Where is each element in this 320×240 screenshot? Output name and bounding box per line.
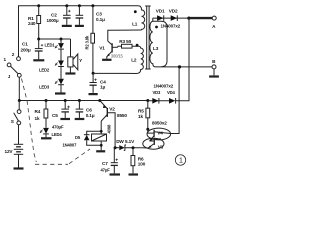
svg-text:1N4007x2: 1N4007x2 xyxy=(154,84,174,89)
capacitor C5 xyxy=(52,101,70,130)
ground (LED chain) xyxy=(55,92,66,94)
resistor R4 xyxy=(35,101,48,128)
junction dot (R6) xyxy=(132,146,135,149)
junction dots (relay/D5) xyxy=(100,130,103,133)
LED1 xyxy=(45,43,64,50)
svg-text:VD2: VD2 xyxy=(169,9,178,14)
capacitor C3 xyxy=(76,6,105,25)
svg-text:47μF: 47μF xyxy=(101,168,111,173)
junction dot (DW line / C7) xyxy=(114,146,117,149)
switch J lever xyxy=(11,66,18,73)
svg-text:C2: C2 xyxy=(51,13,57,18)
svg-text:470μF: 470μF xyxy=(52,124,64,129)
dashed mechanical linkage xyxy=(22,79,91,165)
junction dots on top rail xyxy=(37,4,94,7)
ground (V1 emitter) xyxy=(102,59,111,61)
zener DW xyxy=(115,139,141,151)
svg-text:S: S xyxy=(11,119,14,124)
resistor R3 xyxy=(111,39,132,58)
svg-text:1N4007: 1N4007 xyxy=(63,143,78,148)
diode D5 xyxy=(63,131,102,147)
svg-text:4098: 4098 xyxy=(106,124,111,134)
LED3 xyxy=(39,79,64,90)
diode VD4 xyxy=(167,90,176,104)
svg-text:C3: C3 xyxy=(96,11,102,16)
svg-text:1k: 1k xyxy=(35,116,40,121)
svg-text:1μ: 1μ xyxy=(100,84,105,89)
junction dot at A line xyxy=(187,17,190,20)
transformer core xyxy=(145,6,151,69)
junction dots middle rail xyxy=(18,99,150,102)
wire: pole to mid rail xyxy=(18,77,20,100)
junction dot on B line xyxy=(178,65,181,68)
resistor R6 xyxy=(131,148,146,174)
svg-text:VD4: VD4 xyxy=(167,90,176,95)
ground (C6) xyxy=(75,118,85,120)
wire: V4 collector to B line xyxy=(171,67,180,134)
svg-text:J: J xyxy=(8,74,11,79)
switch J pole xyxy=(17,73,21,77)
transformer feedback winding L2 xyxy=(93,44,143,74)
node X dot xyxy=(92,72,95,75)
ground (terminal B) xyxy=(209,75,219,77)
svg-text:8550: 8550 xyxy=(117,113,127,118)
terminal A xyxy=(212,16,216,20)
svg-text:L1: L1 xyxy=(132,21,138,26)
wire xyxy=(60,85,62,94)
ground (relay) xyxy=(96,150,105,152)
svg-text:V3: V3 xyxy=(158,145,164,150)
svg-text:LED4: LED4 xyxy=(52,132,63,137)
transistor V3 (envelope) xyxy=(141,138,164,150)
terminal B xyxy=(212,65,216,69)
resistor R5 xyxy=(138,101,150,129)
diode VD3 xyxy=(148,90,169,104)
ground (LED4) xyxy=(41,137,52,139)
ground (C5) xyxy=(60,118,70,120)
svg-text:A: A xyxy=(212,24,216,29)
svg-text:C7: C7 xyxy=(102,161,108,166)
resistor R1 xyxy=(28,6,41,39)
svg-text:LED2: LED2 xyxy=(39,68,50,73)
capacitor C2 xyxy=(47,6,71,25)
svg-text:Y: Y xyxy=(79,58,83,63)
svg-text:L2: L2 xyxy=(131,58,137,63)
junction dot (V4 base) xyxy=(146,128,149,131)
svg-text:240: 240 xyxy=(28,21,36,26)
transistor V1 xyxy=(99,41,117,59)
svg-text:1000μ: 1000μ xyxy=(47,18,59,23)
ground (battery) xyxy=(14,167,24,169)
wire xyxy=(60,49,62,60)
svg-text:R5: R5 xyxy=(138,109,144,114)
wire: R2 to node X xyxy=(92,43,94,73)
switch J contact 1 xyxy=(7,63,11,67)
svg-text:R4: R4 xyxy=(35,109,41,114)
svg-text:B: B xyxy=(212,59,216,64)
relay coil K xyxy=(92,124,112,150)
wire: middle +12V rail xyxy=(19,100,148,102)
svg-text:L3: L3 xyxy=(153,46,159,51)
transistor V4 (envelope) xyxy=(147,120,171,141)
svg-text:V4: V4 xyxy=(157,130,163,135)
LED4 xyxy=(40,128,62,137)
figure number 1 xyxy=(175,155,185,165)
capacitor C6 xyxy=(76,101,95,118)
transformer primary L1 xyxy=(108,6,145,41)
svg-text:0.1μ: 0.1μ xyxy=(96,17,105,22)
svg-text:R2 3.8k: R2 3.8k xyxy=(85,35,90,49)
ground (speaker) xyxy=(65,72,75,74)
wire: A junction down to VD4 xyxy=(176,18,189,101)
svg-text:VD1: VD1 xyxy=(156,9,165,14)
diode VD2 xyxy=(169,9,178,21)
svg-text:VD3: VD3 xyxy=(153,90,162,95)
resistor R2 xyxy=(85,33,95,49)
transformer secondary L3 xyxy=(150,18,212,67)
wire: rail to R2 xyxy=(92,6,94,34)
svg-text:C1: C1 xyxy=(22,42,28,47)
svg-text:5.1V: 5.1V xyxy=(125,139,135,144)
svg-text:1: 1 xyxy=(179,158,183,165)
svg-text:1: 1 xyxy=(4,57,7,62)
svg-text:R3 50: R3 50 xyxy=(119,39,131,44)
ground (C3) xyxy=(75,25,84,27)
battery 12V xyxy=(5,125,24,168)
LED2 xyxy=(39,61,64,73)
ground (C2) xyxy=(62,25,72,27)
switch S xyxy=(11,101,21,125)
transistor V2 xyxy=(100,101,128,148)
LED chain wire xyxy=(60,39,62,43)
svg-text:100: 100 xyxy=(138,162,146,167)
switch J contact 2 xyxy=(17,57,21,61)
svg-text:2: 2 xyxy=(12,52,15,57)
ground (R6) xyxy=(129,173,139,175)
svg-text:LED3: LED3 xyxy=(39,85,50,90)
svg-text:D5: D5 xyxy=(75,135,81,140)
svg-text:1N4007x2: 1N4007x2 xyxy=(161,24,181,29)
svg-text:12V: 12V xyxy=(5,149,14,154)
thick wire to terminal A xyxy=(190,17,212,19)
ground (C4) xyxy=(89,93,98,95)
svg-text:LED1: LED1 xyxy=(45,43,56,48)
wire xyxy=(60,67,62,79)
wire: +12V top rail xyxy=(19,6,139,57)
ground (C7) xyxy=(110,173,121,175)
svg-text:1k: 1k xyxy=(138,114,143,119)
svg-text:C5: C5 xyxy=(52,113,58,118)
svg-text:V1: V1 xyxy=(99,46,105,51)
svg-text:300/15: 300/15 xyxy=(111,53,124,58)
wire: B to ground xyxy=(213,69,215,76)
capacitor C4 xyxy=(90,73,107,93)
svg-text:200μ: 200μ xyxy=(21,47,31,52)
diode VD1 xyxy=(153,9,189,21)
svg-text:0.1μ: 0.1μ xyxy=(86,113,95,118)
svg-text:V2: V2 xyxy=(109,107,115,112)
ground (C1) xyxy=(33,59,44,61)
svg-text:8050x2: 8050x2 xyxy=(152,120,167,125)
speaker Y xyxy=(68,39,83,73)
capacitor C7 xyxy=(101,148,118,174)
wire: second rail (R1 bottom to speaker) xyxy=(39,38,71,40)
svg-text:DW: DW xyxy=(116,139,124,144)
capacitor C1 xyxy=(21,39,44,59)
